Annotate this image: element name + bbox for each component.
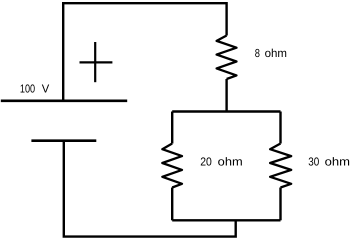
wire right branch lead xyxy=(279,112,281,144)
svg-text:100: 100 xyxy=(20,82,35,95)
battery V1 positive plate xyxy=(1,100,127,103)
label 30 ohm xyxy=(308,155,350,168)
svg-text:ohm: ohm xyxy=(325,155,350,168)
resistor R3 30 ohm xyxy=(270,144,291,188)
battery plus sign xyxy=(80,42,113,82)
svg-text:ohm: ohm xyxy=(218,155,243,168)
wire left branch to bottom xyxy=(171,188,173,221)
node A top of parallel pair xyxy=(172,110,280,112)
label 100 V xyxy=(20,82,50,95)
resistor R1 8 ohm xyxy=(217,36,237,80)
resistor R2 20 ohm xyxy=(162,144,182,188)
battery V1 negative plate xyxy=(31,139,96,142)
wire right branch to bottom xyxy=(279,188,281,221)
wire top from battery + to R1 xyxy=(63,3,226,101)
svg-text:8: 8 xyxy=(255,47,260,60)
wire left branch lead xyxy=(171,112,173,144)
label 20 ohm xyxy=(200,155,243,168)
svg-text:ohm: ohm xyxy=(265,47,287,60)
svg-text:V: V xyxy=(42,82,50,95)
node B bottom of parallel pair xyxy=(172,219,280,221)
wire bottom return to battery - xyxy=(64,141,236,237)
wire R1 to parallel node A xyxy=(225,79,227,112)
label 8 ohm xyxy=(255,47,287,60)
svg-text:20: 20 xyxy=(200,155,212,168)
svg-text:30: 30 xyxy=(308,155,319,168)
